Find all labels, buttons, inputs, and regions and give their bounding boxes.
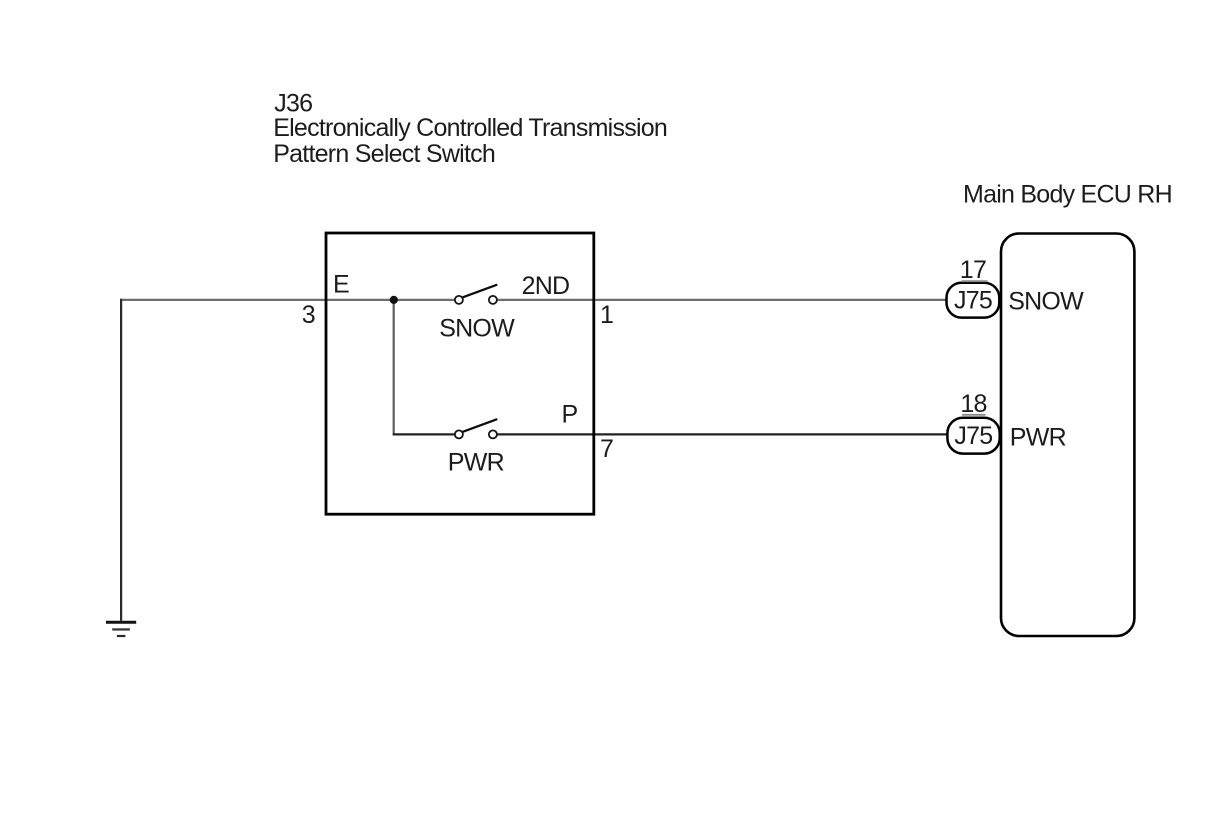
svg-text:SNOW: SNOW	[439, 314, 515, 342]
ECU pin label PWR	[1010, 424, 1066, 452]
svg-text:Pattern Select Switch: Pattern Select Switch	[273, 140, 495, 168]
wire: vertical drop from junction to PWR switch branch	[393, 300, 395, 435]
svg-text:P: P	[562, 401, 578, 429]
svg-text:J75: J75	[954, 287, 992, 315]
label J36 Electronically Controlled Transmission Pattern Select Switch	[273, 90, 667, 168]
switch PWR: left contact	[455, 430, 463, 438]
svg-text:PWR: PWR	[1010, 424, 1066, 452]
label Main Body ECU RH	[963, 180, 1172, 208]
svg-text:Main Body ECU RH: Main Body ECU RH	[963, 180, 1172, 208]
switch box J36 outline	[326, 233, 594, 514]
svg-text:3: 3	[302, 301, 315, 329]
svg-text:2ND: 2ND	[522, 272, 570, 300]
label SNOW inside switch	[439, 314, 515, 342]
svg-text:7: 7	[600, 435, 613, 463]
svg-text:17: 17	[960, 256, 986, 284]
svg-text:1: 1	[600, 301, 613, 329]
wire: bottom horizontal net, right of PWR switch to connector J75 pin 18	[497, 433, 947, 435]
wire: top horizontal net, right of SNOW switch to connector J75 pin 17	[497, 299, 947, 301]
junction node at E branch	[390, 296, 398, 304]
label P	[562, 401, 578, 429]
connector J75 oval pin 18	[947, 418, 999, 454]
Main Body ECU RH block outline	[1001, 234, 1134, 637]
svg-text:J75: J75	[954, 422, 992, 450]
pin number 17	[960, 256, 988, 284]
svg-text:E: E	[333, 271, 349, 299]
svg-text:Electronically Controlled Tran: Electronically Controlled Transmission	[273, 114, 667, 142]
ECU pin label SNOW	[1008, 287, 1084, 315]
pin number 18	[960, 390, 986, 418]
connector J75 oval pin 17	[947, 283, 1000, 318]
wire: vertical ground drop	[120, 299, 122, 621]
switch SNOW: right contact	[489, 296, 497, 304]
switch PWR: blade	[462, 419, 496, 432]
pin number 3	[302, 301, 315, 329]
switch PWR: right contact	[489, 430, 497, 438]
ground	[106, 622, 136, 636]
switch SNOW: left contact	[455, 296, 463, 304]
label 2ND	[522, 272, 570, 300]
pin label E	[333, 271, 349, 299]
wire: top horizontal net E/2ND from ground drop to pin 17 (left segment)	[120, 299, 454, 301]
pin number 1	[600, 301, 613, 329]
svg-text:SNOW: SNOW	[1008, 287, 1084, 315]
pin number 7	[600, 435, 613, 463]
switch SNOW: blade	[462, 285, 496, 298]
svg-text:PWR: PWR	[448, 449, 504, 477]
label PWR inside switch	[448, 449, 504, 477]
wire: bottom horizontal net P/PWR (left segment to switch)	[393, 433, 455, 435]
